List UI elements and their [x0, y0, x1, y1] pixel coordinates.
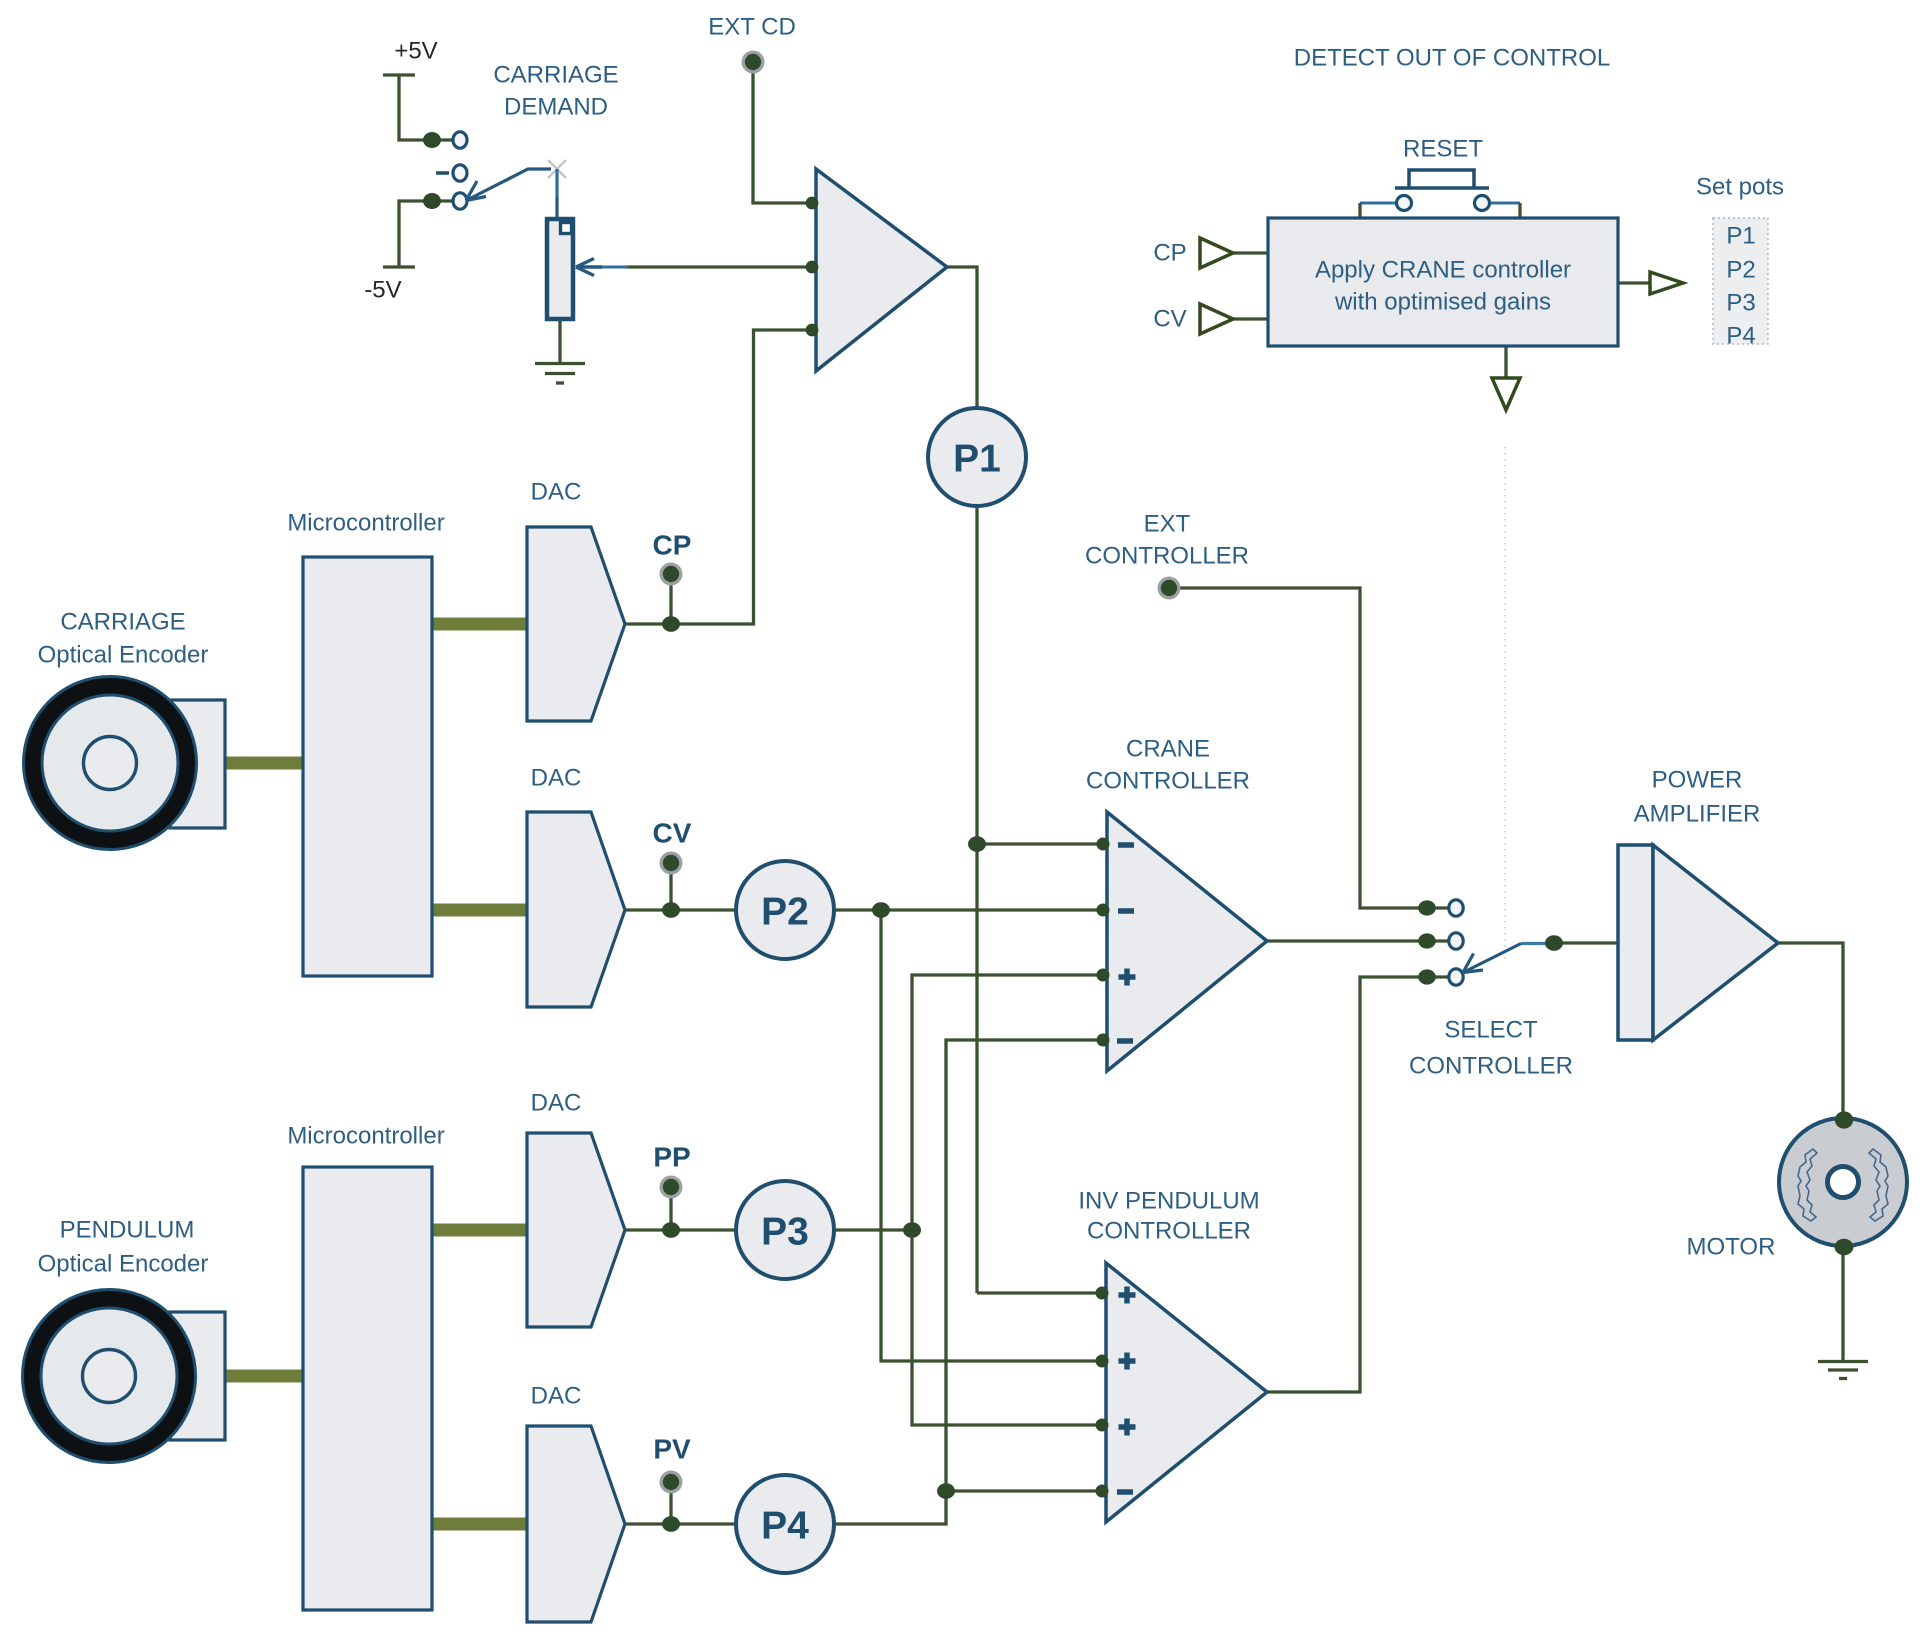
svg-text:PP: PP — [653, 1142, 690, 1173]
svg-text:PV: PV — [653, 1434, 691, 1465]
svg-text:P4: P4 — [1726, 323, 1755, 350]
svg-text:P2: P2 — [1726, 257, 1755, 284]
svg-text:P4: P4 — [761, 1505, 809, 1548]
svg-text:CONTROLLER: CONTROLLER — [1409, 1053, 1573, 1080]
svg-text:P1: P1 — [953, 438, 1001, 481]
svg-text:PENDULUM: PENDULUM — [60, 1217, 195, 1244]
svg-text:CP: CP — [1153, 240, 1186, 267]
svg-text:-5V: -5V — [364, 277, 401, 304]
svg-text:Optical Encoder: Optical Encoder — [38, 642, 209, 669]
svg-text:+5V: +5V — [394, 38, 437, 65]
svg-text:DAC: DAC — [531, 1090, 582, 1117]
svg-text:CONTROLLER: CONTROLLER — [1085, 543, 1249, 570]
svg-text:DAC: DAC — [531, 479, 582, 506]
svg-text:CONTROLLER: CONTROLLER — [1086, 768, 1250, 795]
svg-text:CARRIAGE: CARRIAGE — [60, 609, 185, 636]
svg-text:P2: P2 — [761, 891, 809, 934]
svg-text:EXT CD: EXT CD — [708, 14, 796, 41]
svg-text:DAC: DAC — [531, 765, 582, 792]
svg-text:Optical Encoder: Optical Encoder — [38, 1251, 209, 1278]
svg-text:CP: CP — [653, 530, 692, 561]
svg-text:Microcontroller: Microcontroller — [287, 1123, 444, 1150]
svg-text:DETECT OUT OF CONTROL: DETECT OUT OF CONTROL — [1294, 45, 1610, 72]
svg-text:CONTROLLER: CONTROLLER — [1087, 1218, 1251, 1245]
svg-text:DAC: DAC — [531, 1383, 582, 1410]
svg-text:CV: CV — [653, 818, 692, 849]
svg-text:MOTOR: MOTOR — [1687, 1234, 1776, 1261]
svg-text:SELECT: SELECT — [1444, 1017, 1538, 1044]
svg-text:CV: CV — [1153, 306, 1186, 333]
svg-text:CARRIAGE: CARRIAGE — [493, 62, 618, 89]
svg-text:AMPLIFIER: AMPLIFIER — [1634, 801, 1761, 828]
svg-text:POWER: POWER — [1652, 767, 1743, 794]
svg-text:DEMAND: DEMAND — [504, 94, 608, 121]
svg-text:Set pots: Set pots — [1696, 174, 1784, 201]
svg-text:P1: P1 — [1726, 223, 1755, 250]
svg-text:with optimised gains: with optimised gains — [1334, 289, 1551, 316]
svg-text:P3: P3 — [761, 1211, 809, 1254]
svg-text:INV PENDULUM: INV PENDULUM — [1078, 1188, 1259, 1215]
svg-text:CRANE: CRANE — [1126, 736, 1210, 763]
svg-text:EXT: EXT — [1144, 511, 1191, 538]
svg-text:RESET: RESET — [1403, 136, 1483, 163]
svg-text:Microcontroller: Microcontroller — [287, 510, 444, 537]
svg-text:P3: P3 — [1726, 290, 1755, 317]
svg-text:Apply CRANE controller: Apply CRANE controller — [1315, 257, 1571, 284]
